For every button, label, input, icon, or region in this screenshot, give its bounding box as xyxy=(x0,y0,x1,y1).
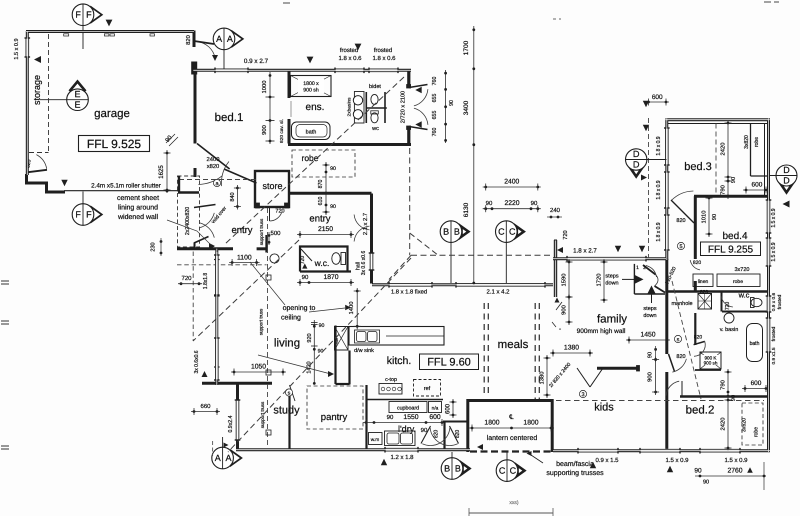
bath ens xyxy=(292,122,331,140)
svg-text:D: D xyxy=(633,159,640,169)
svg-text:lantern centered: lantern centered xyxy=(487,435,538,442)
wall meals north xyxy=(372,283,553,286)
marker B/B top xyxy=(459,224,470,239)
dim 2400 xyxy=(483,186,541,188)
wc ens xyxy=(371,113,378,123)
svg-text:900: 900 xyxy=(648,372,654,382)
svg-text:1550: 1550 xyxy=(403,414,418,421)
svg-text:F: F xyxy=(75,209,81,219)
svg-text:90: 90 xyxy=(712,214,718,220)
svg-text:1.8 x 0.6: 1.8 x 0.6 xyxy=(338,56,362,62)
svg-text:living: living xyxy=(274,337,300,349)
paper mark top 1 xyxy=(283,2,290,4)
ref dashed box xyxy=(414,380,441,397)
svg-text:600: 600 xyxy=(429,414,441,421)
svg-text:900: 900 xyxy=(562,305,568,315)
svg-text:1100: 1100 xyxy=(237,254,252,261)
svg-text:E: E xyxy=(74,100,80,110)
window 1.5x0.9 garage left wall xyxy=(25,38,29,57)
entry double doors leaves xyxy=(194,205,216,208)
dim col 1700/3400/6130 xyxy=(473,26,475,284)
svg-text:D: D xyxy=(783,165,790,175)
wall bed1/ens divider lower xyxy=(288,119,291,144)
svg-text:1.8 x 0.9: 1.8 x 0.9 xyxy=(656,180,662,199)
door arc bed2 north xyxy=(666,381,679,395)
marker triangles family wall xyxy=(615,246,621,252)
svg-text:manhole: manhole xyxy=(671,301,692,307)
svg-text:600: 600 xyxy=(751,380,762,387)
svg-text:0.9x2.4: 0.9x2.4 xyxy=(228,415,234,432)
dim 2420 bed3 xyxy=(727,120,729,180)
marker tri bottom2 xyxy=(667,466,673,472)
stem C/C top xyxy=(505,242,507,283)
svg-text:family: family xyxy=(597,313,627,325)
node 3 circled kids xyxy=(579,390,586,397)
kids cavity doors xyxy=(577,368,590,387)
wall w.c. room xyxy=(300,247,348,272)
svg-text:0.9 x 1.5: 0.9 x 1.5 xyxy=(595,458,619,464)
cooktop xyxy=(379,384,402,395)
dim 900 kids xyxy=(655,357,657,396)
dim 2420 bed2 xyxy=(727,397,729,451)
svg-text:pantry: pantry xyxy=(321,412,348,423)
window bath east frosted2 xyxy=(767,318,771,352)
svg-text:v. basin: v. basin xyxy=(720,327,739,333)
svg-text:1.5 x 0.9: 1.5 x 0.9 xyxy=(665,458,689,464)
svg-text:1.8 x 0.9: 1.8 x 0.9 xyxy=(656,136,662,155)
dim 1380 meals v xyxy=(546,355,548,398)
svg-text:720: 720 xyxy=(181,276,192,282)
svg-text:655: 655 xyxy=(432,111,438,120)
svg-text:760: 760 xyxy=(432,128,438,137)
dim 790 bed2 xyxy=(727,369,729,399)
wall kitchen niche south xyxy=(336,383,350,385)
svg-text:1010: 1010 xyxy=(702,211,708,224)
window frosted 1.8x0.6 ens a xyxy=(335,69,364,73)
wall w.c. bottom xyxy=(300,270,351,272)
wall kitchen bench back xyxy=(367,399,444,401)
svg-text:0.9 x1.5: 0.9 x1.5 xyxy=(771,347,777,364)
meals dashed column west xyxy=(483,303,485,397)
svg-text:720: 720 xyxy=(300,256,306,265)
svg-text:1000: 1000 xyxy=(262,81,268,94)
svg-text:0.9 x 2.7: 0.9 x 2.7 xyxy=(244,58,269,65)
svg-text:meals: meals xyxy=(498,339,529,351)
wall kitchen niche east xyxy=(348,351,350,385)
wall bed.1 left lower stub xyxy=(194,168,197,177)
window 1.8x1.8 fixed xyxy=(389,283,432,287)
window bed3 west b xyxy=(665,172,669,208)
svg-text:supporting trusses: supporting trusses xyxy=(546,470,604,477)
svg-text:820: 820 xyxy=(700,289,709,295)
marker C/C top xyxy=(515,224,526,239)
svg-text:870: 870 xyxy=(318,180,324,189)
svg-text:frosted: frosted xyxy=(374,48,392,54)
robe bed.3 partition xyxy=(750,123,752,176)
window 1.5x0.9 bed2 bottom a xyxy=(640,449,680,453)
svg-text:1700: 1700 xyxy=(463,40,470,55)
stem B/B top xyxy=(450,242,452,283)
wall bed.3 top xyxy=(666,118,770,121)
svg-text:2400: 2400 xyxy=(504,178,519,185)
svg-text:820: 820 xyxy=(676,218,685,224)
svg-text:720: 720 xyxy=(275,208,284,214)
svg-text:entry: entry xyxy=(231,225,252,236)
marker F/F bottom xyxy=(91,207,102,222)
svg-text:1800: 1800 xyxy=(523,419,538,426)
window living 3x0.6x0.6 xyxy=(215,338,219,380)
svg-text:900 sh: 900 sh xyxy=(704,360,718,365)
wall kids north xyxy=(597,367,639,370)
wall bed1/ens divider upper xyxy=(288,70,291,98)
stem A/A bottom xyxy=(222,437,224,447)
wall family north xyxy=(553,257,666,260)
ens partition walls xyxy=(365,92,367,123)
svg-text:cupboard: cupboard xyxy=(397,405,419,411)
svg-text:entry: entry xyxy=(309,213,330,224)
wall house top (bed.1/ens) xyxy=(193,69,411,72)
svg-text:2/720 x 2100: 2/720 x 2100 xyxy=(401,91,407,123)
leader opening 1 xyxy=(250,262,285,305)
wall bed.3/bed.4 divider xyxy=(694,195,768,198)
leader beam/fascia xyxy=(531,455,543,463)
leader arrow kitchen corner xyxy=(258,355,328,373)
support truss dashed xyxy=(267,208,269,448)
svg-text:bed.3: bed.3 xyxy=(684,161,712,173)
jamb tabs garage top wall xyxy=(64,34,69,36)
svg-text:C: C xyxy=(510,466,517,476)
svg-text:A: A xyxy=(225,453,231,463)
svg-text:x820: x820 xyxy=(207,164,220,170)
svg-text:c-top: c-top xyxy=(385,377,397,383)
robe bed.2 dashed xyxy=(742,403,763,445)
steps bay walls xyxy=(633,264,635,294)
svg-text:steps: steps xyxy=(643,306,656,312)
svg-text:garage: garage xyxy=(94,108,130,120)
svg-text:1590: 1590 xyxy=(562,274,568,287)
dashed diag manhole-bed2 xyxy=(672,281,701,399)
store jamb blocks xyxy=(256,203,260,208)
svg-text:℄: ℄ xyxy=(508,414,514,421)
dim 600 bed2 xyxy=(742,388,769,390)
marker tri study sw xyxy=(202,371,208,377)
wall ens south (bed1-robe divider) xyxy=(288,143,411,146)
wall family west stub xyxy=(554,240,557,297)
svg-text:n/a: n/a xyxy=(432,405,439,411)
kitchen flue unit hatched xyxy=(335,327,349,351)
dim 600 kitchen v xyxy=(452,399,454,418)
steps arrow right xyxy=(635,275,644,284)
svg-text:cement sheet: cement sheet xyxy=(117,195,159,202)
dashed ceiling kids-bed2 xyxy=(556,400,764,402)
wall center stripes xyxy=(26,31,194,33)
svg-text:820 cav. sl.: 820 cav. sl. xyxy=(279,119,285,143)
wall bottom kids/bed2 xyxy=(553,449,770,452)
svg-text:600: 600 xyxy=(652,94,663,101)
svg-text:920: 920 xyxy=(307,333,313,342)
stem F/F bottom xyxy=(82,192,84,204)
svg-text:2.4m x5.1m roller shutter: 2.4m x5.1m roller shutter xyxy=(91,182,161,189)
marker C/C bottom xyxy=(515,463,526,478)
svg-text:1800 x: 1800 x xyxy=(303,81,319,87)
dim 90/920/90/1420 column xyxy=(313,320,315,384)
leader cement note xyxy=(167,220,211,245)
dim 1800 1800 lantern xyxy=(469,427,554,429)
window frosted 1.8x0.6 ens b xyxy=(369,69,398,73)
svg-text:C: C xyxy=(509,227,516,237)
svg-text:1380: 1380 xyxy=(564,344,579,351)
svg-text:store: store xyxy=(262,181,282,191)
svg-text:0.9 x 0.6: 0.9 x 0.6 xyxy=(771,292,777,311)
marker tri DD right xyxy=(783,201,790,208)
svg-text:support truss: support truss xyxy=(260,401,265,428)
svg-text:1400: 1400 xyxy=(349,302,355,315)
svg-text:B: B xyxy=(455,463,461,473)
laundry tubs xyxy=(385,431,416,446)
linen box xyxy=(693,274,713,287)
svg-text:study: study xyxy=(273,404,300,416)
dim 2150 entry xyxy=(297,234,354,236)
svg-text:90: 90 xyxy=(731,395,737,401)
window bed4 east b xyxy=(767,238,771,266)
svg-text:1.8 x 1.8 fixed: 1.8 x 1.8 fixed xyxy=(391,289,427,295)
toilet wc2 xyxy=(751,298,762,306)
svg-text:s: s xyxy=(288,391,291,397)
v.basin circle xyxy=(724,313,734,323)
wall bottom study-l'dry xyxy=(236,448,470,451)
dim 660 xyxy=(191,411,220,413)
wall entry south piece xyxy=(257,247,267,250)
front door jambs xyxy=(407,85,411,89)
marker F/F top xyxy=(91,7,102,22)
marker tri bottom1 xyxy=(590,462,596,468)
svg-text:FFL 9.60: FFL 9.60 xyxy=(427,356,471,368)
svg-text:660: 660 xyxy=(200,404,211,410)
node 5 circled bed4 xyxy=(677,242,684,249)
paper mark left 3 xyxy=(1,445,9,447)
svg-text:robe: robe xyxy=(754,427,760,437)
paper mark left 1 xyxy=(1,280,9,282)
dim 1625 xyxy=(166,150,168,193)
svg-text:90: 90 xyxy=(330,204,336,210)
svg-text:6130: 6130 xyxy=(463,202,470,217)
window living 1.8x1.8 xyxy=(215,255,219,295)
window bed3 west c xyxy=(665,215,669,250)
svg-text:frosted: frosted xyxy=(340,48,358,54)
svg-text:F: F xyxy=(86,209,92,219)
truss diagonal A xyxy=(225,77,404,244)
svg-text:820: 820 xyxy=(455,430,461,439)
svg-text:500: 500 xyxy=(270,231,281,237)
svg-text:2.1 x 2.7: 2.1 x 2.7 xyxy=(363,213,369,235)
dim 1100 xyxy=(229,262,260,264)
svg-text:l'dry.: l'dry. xyxy=(398,424,416,434)
svg-text:A: A xyxy=(227,34,233,44)
svg-text:A: A xyxy=(216,34,222,44)
svg-text:2420: 2420 xyxy=(721,143,727,156)
node a circled xyxy=(213,179,220,186)
truss diagonal C xyxy=(228,258,411,452)
steps arrow up xyxy=(647,286,656,295)
robe box bed4 xyxy=(717,274,760,287)
marker tri AA bottom xyxy=(224,443,229,448)
wall study top xyxy=(202,382,272,385)
svg-text:linen: linen xyxy=(698,279,709,285)
svg-text:F: F xyxy=(86,10,92,20)
wall ens east upper xyxy=(407,69,410,88)
door study leaf xyxy=(290,385,296,401)
roof dashed line entry xyxy=(179,179,256,181)
dim robe 90/870/610/90 column xyxy=(325,162,327,215)
window 0.9x1.5 kids bottom xyxy=(578,449,618,453)
robe bed.1 dashed outline xyxy=(292,150,355,177)
svg-text:hall: hall xyxy=(356,262,362,270)
svg-text:1.2 x 1.8: 1.2 x 1.8 xyxy=(390,455,414,461)
wall bed.3 west xyxy=(665,119,668,261)
stem E/E xyxy=(40,99,88,101)
svg-text:90: 90 xyxy=(694,467,702,474)
window bed3 west a xyxy=(665,128,669,165)
wall lantern north xyxy=(467,399,554,402)
svg-text:ens.: ens. xyxy=(306,102,325,113)
wall lantern west xyxy=(466,399,469,452)
window study west xyxy=(236,400,240,440)
truss diagonal B xyxy=(193,240,299,341)
marker B/B bottom xyxy=(460,461,471,476)
marker E/E xyxy=(70,82,86,92)
eave dashed living nw vertical xyxy=(192,252,194,342)
svg-text:support truss: support truss xyxy=(259,308,264,335)
marker A/A top xyxy=(232,31,243,46)
svg-text:90: 90 xyxy=(703,479,709,485)
basins bench ens xyxy=(354,92,364,124)
wall support truss top stub xyxy=(265,235,268,253)
wall store box xyxy=(255,171,289,207)
svg-text:2760: 2760 xyxy=(727,467,742,474)
svg-text:1.8 x 0.6: 1.8 x 0.6 xyxy=(372,56,396,62)
svg-text:90: 90 xyxy=(648,352,654,358)
svg-text:support truss: support truss xyxy=(259,218,264,245)
svg-text:D: D xyxy=(783,175,790,185)
dim 600 bed3 robe xyxy=(743,189,769,191)
svg-text:1625: 1625 xyxy=(159,165,165,179)
svg-text:F: F xyxy=(75,10,81,20)
dim 1000/900 bed1 xyxy=(269,72,271,144)
bath2 xyxy=(747,324,763,362)
dim 900 family xyxy=(568,294,570,325)
window 1.2x1.8 ldry bottom xyxy=(385,448,418,452)
svg-text:3: 3 xyxy=(581,392,584,398)
ffl 9.525 box xyxy=(79,136,150,152)
marker tri bed3 a xyxy=(643,101,649,107)
svg-text:600: 600 xyxy=(752,181,763,188)
wall bathroom south xyxy=(695,369,721,371)
svg-text:kids: kids xyxy=(594,401,614,413)
wall wc2 west xyxy=(721,292,723,312)
svg-text:FFL 9.525: FFL 9.525 xyxy=(87,137,142,151)
svg-text:kitch.: kitch. xyxy=(387,355,412,367)
arrow entry door xyxy=(209,243,215,249)
svg-text:w.m: w.m xyxy=(371,438,380,443)
wall garage left xyxy=(26,31,29,175)
svg-text:down: down xyxy=(605,280,618,286)
svg-text:2x2400x820: 2x2400x820 xyxy=(185,207,191,235)
dim 90 1870 xyxy=(297,282,354,284)
svg-text:900 sh: 900 sh xyxy=(303,87,319,93)
svg-text:bath: bath xyxy=(750,341,760,347)
n/a box xyxy=(429,402,442,413)
svg-text:B: B xyxy=(443,227,449,237)
dim 790 bed3 xyxy=(727,178,729,199)
svg-text:1870: 1870 xyxy=(323,274,338,281)
wall kids-ldry corridor north xyxy=(443,421,467,423)
svg-text:3x 0.6x0.6: 3x 0.6x0.6 xyxy=(194,350,200,373)
wall lantern east xyxy=(551,399,554,452)
wall ens east lower xyxy=(407,127,410,145)
pantry shelves dashed xyxy=(307,386,363,429)
marker D/D right xyxy=(778,180,795,193)
door 820 garage left xyxy=(27,170,47,173)
svg-text:240: 240 xyxy=(550,208,561,214)
paper mark top right xyxy=(764,1,771,3)
window 2.1x4.2 meals xyxy=(456,283,545,287)
door 820 ldry b xyxy=(450,426,459,444)
svg-text:frosted: frosted xyxy=(777,294,783,309)
marker tri wc door xyxy=(302,263,307,268)
svg-text:790: 790 xyxy=(721,185,727,195)
marker D/D left xyxy=(628,164,645,177)
svg-text:90: 90 xyxy=(449,100,455,106)
svg-text:2400: 2400 xyxy=(207,157,220,163)
svg-text:B: B xyxy=(454,227,460,237)
door 820 garage-to-entry pier xyxy=(192,62,197,74)
svg-text:xxs): xxs) xyxy=(509,500,519,506)
svg-text:1.5 x 0.9: 1.5 x 0.9 xyxy=(724,458,748,464)
marker triangle top wall bed1 xyxy=(307,57,314,64)
svg-text:1: 1 xyxy=(636,265,639,271)
svg-text:1.8 x 0.9: 1.8 x 0.9 xyxy=(656,222,662,241)
svg-text:FFL 9.255: FFL 9.255 xyxy=(708,244,754,255)
kitchen island xyxy=(349,327,444,346)
window bed4 east xyxy=(767,200,771,233)
svg-text:steps: steps xyxy=(605,273,618,279)
wall wc2 south xyxy=(722,311,768,313)
dim 90 kids xyxy=(654,348,657,351)
svg-text:90: 90 xyxy=(531,201,538,207)
wall garage top xyxy=(26,30,194,33)
hall cupboard doors xyxy=(354,215,369,230)
svg-text:3x720: 3x720 xyxy=(734,267,749,273)
wall living top xyxy=(177,247,233,250)
wall garage/bed.1 vertical xyxy=(193,62,196,74)
svg-text:820: 820 xyxy=(186,35,192,45)
marker triangle top wall garage xyxy=(106,20,113,27)
wall bed4 south xyxy=(667,290,768,292)
window 1.5x0.9 bed2 bottom b xyxy=(700,449,740,453)
svg-text:bed.2: bed.2 xyxy=(686,404,715,416)
svg-text:d/w sink: d/w sink xyxy=(354,348,374,354)
window 0.9x2.7 bed.1 xyxy=(215,69,248,73)
svg-text:1.5 x 0.9: 1.5 x 0.9 xyxy=(771,242,777,261)
svg-text:1.5 x 0.9: 1.5 x 0.9 xyxy=(14,38,20,59)
meals dashed column east xyxy=(534,303,536,402)
porch eave dashed horizontal xyxy=(411,254,552,256)
wall bathroom west xyxy=(694,313,696,345)
wall bed.3 top inner xyxy=(668,123,767,125)
svg-text:90: 90 xyxy=(387,415,394,421)
dim 1450 family xyxy=(626,339,670,341)
steps door leaves xyxy=(643,265,656,275)
